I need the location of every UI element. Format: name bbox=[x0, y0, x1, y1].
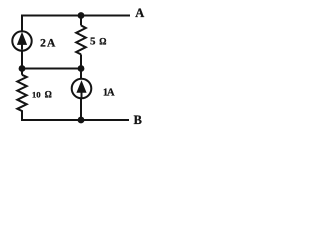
wire left branch middle bbox=[21, 51, 23, 75]
current source I2 1A circle bbox=[72, 79, 92, 99]
node junction dot top bbox=[78, 12, 85, 19]
svg-text:10: 10 bbox=[32, 90, 41, 100]
svg-text:A: A bbox=[135, 6, 144, 20]
wire middle branch bottom stem bbox=[80, 98, 82, 120]
wire bottom rail bbox=[21, 119, 129, 121]
current source I1 2A arrow bbox=[17, 32, 27, 50]
svg-text:A: A bbox=[107, 88, 115, 99]
node junction dot left-mid bbox=[19, 65, 26, 72]
wire top rail bbox=[21, 15, 130, 17]
svg-text:A: A bbox=[47, 38, 56, 50]
svg-text:Ω: Ω bbox=[99, 36, 106, 46]
svg-text:B: B bbox=[134, 113, 142, 127]
current source I2 1A arrow bbox=[76, 80, 86, 98]
svg-text:Ω: Ω bbox=[45, 89, 52, 99]
wire middle rail bbox=[22, 68, 81, 70]
svg-text:5: 5 bbox=[90, 36, 96, 48]
wire left branch upper bbox=[21, 16, 23, 32]
resistor R1 5 Ohm bbox=[76, 25, 86, 54]
svg-text:2: 2 bbox=[40, 38, 46, 50]
wire middle branch top stem bbox=[80, 16, 82, 26]
node junction dot bottom bbox=[78, 117, 85, 124]
node junction dot mid bbox=[78, 65, 85, 72]
resistor R2 10 Ohm bbox=[17, 75, 26, 120]
current source I1 2A circle bbox=[12, 31, 31, 50]
wire middle branch mid stem bbox=[80, 54, 82, 78]
